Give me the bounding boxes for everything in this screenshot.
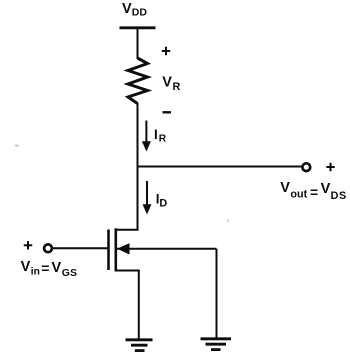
svg-text:R: R	[159, 134, 167, 145]
svg-text:=: =	[41, 260, 49, 276]
svg-text:in: in	[31, 267, 40, 278]
plus sign for VR	[162, 47, 170, 55]
value label VR	[162, 75, 180, 93]
svg-text:V: V	[52, 260, 62, 276]
svg-text:R: R	[173, 81, 181, 93]
scan speck center	[227, 219, 229, 223]
svg-text:=: =	[310, 184, 318, 200]
svg-text:V: V	[321, 181, 331, 197]
input terminal circle	[44, 244, 52, 252]
wire VDD rail to resistor top	[137, 28, 139, 59]
wire body lead down to ground	[216, 249, 218, 339]
transistor Q1 gate bar	[107, 230, 110, 271]
ground at body	[201, 339, 232, 350]
plus sign at output	[326, 163, 334, 171]
transistor Q1 body arrowhead	[117, 243, 130, 254]
wire resistor bottom to drain bend	[137, 103, 139, 231]
node label Vin = VGS	[21, 259, 77, 279]
resistor R (zigzag)	[128, 58, 148, 104]
plus sign at input	[24, 241, 32, 249]
svg-text:DD: DD	[132, 6, 148, 18]
node VDD label	[122, 1, 147, 19]
svg-text:I: I	[154, 127, 158, 142]
minus sign for VR	[163, 111, 172, 113]
power supply VDD rail	[120, 26, 156, 29]
svg-text:D: D	[159, 197, 167, 209]
svg-text:out: out	[290, 188, 307, 200]
wire body lead	[117, 248, 217, 250]
output terminal circle	[302, 163, 310, 171]
wire output line	[138, 166, 303, 168]
current arrow IR	[142, 121, 151, 152]
svg-text:V: V	[21, 259, 31, 275]
svg-text:V: V	[122, 1, 132, 17]
ground at source	[126, 340, 153, 351]
scan speck left	[15, 145, 19, 147]
wire drain bend to channel	[115, 229, 139, 231]
transistor Q1 channel bar	[115, 228, 118, 271]
svg-text:GS: GS	[62, 267, 77, 279]
wire gate lead	[52, 247, 108, 249]
node label Vout = VDS	[280, 180, 347, 202]
current arrow ID	[143, 181, 152, 215]
current label IR	[154, 127, 167, 144]
svg-text:V: V	[280, 180, 290, 196]
svg-text:V: V	[162, 75, 172, 91]
svg-text:DS: DS	[331, 190, 347, 202]
wire source lead	[116, 271, 139, 341]
current label ID	[156, 192, 168, 210]
